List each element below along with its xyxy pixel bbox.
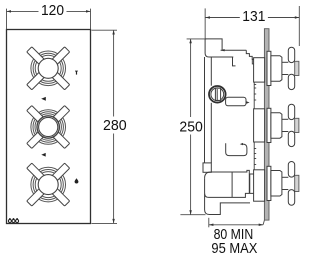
svg-text:95 MAX: 95 MAX: [211, 240, 257, 256]
svg-text:280: 280: [103, 117, 127, 134]
svg-text:250: 250: [179, 118, 202, 135]
svg-text:120: 120: [41, 2, 64, 19]
svg-text:131: 131: [242, 8, 265, 25]
